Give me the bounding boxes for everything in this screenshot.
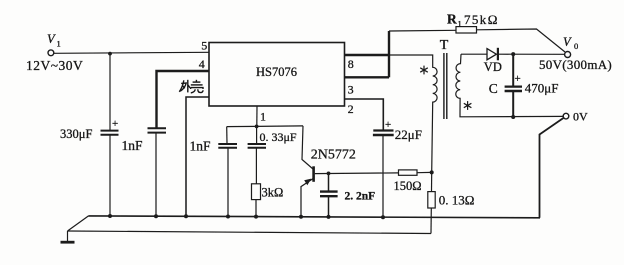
transformer core bbox=[443, 53, 445, 119]
label * secondary bbox=[464, 101, 472, 110]
svg-text:1: 1 bbox=[260, 109, 266, 123]
transformer T secondary bbox=[456, 54, 563, 117]
terminal 0V bbox=[563, 113, 569, 119]
svg-text:1: 1 bbox=[458, 19, 462, 29]
resistor 0.13 bbox=[431, 172, 433, 191]
svg-text:150Ω: 150Ω bbox=[394, 179, 422, 193]
resistor 150 bbox=[399, 170, 418, 175]
svg-text:4: 4 bbox=[199, 57, 205, 71]
wire diode to V0 bbox=[499, 53, 565, 55]
svg-text:2N5772: 2N5772 bbox=[311, 148, 356, 163]
svg-text:T: T bbox=[440, 38, 449, 53]
capacitor 2.2nF bbox=[328, 173, 330, 191]
svg-text:75kΩ: 75kΩ bbox=[464, 12, 499, 27]
svg-text:0. 13Ω: 0. 13Ω bbox=[439, 193, 475, 208]
resistor 3k bbox=[252, 184, 261, 200]
label * primary bbox=[420, 66, 428, 75]
node 150 right junction bbox=[430, 170, 434, 174]
wire base line bbox=[315, 172, 399, 175]
wire pin8 bbox=[345, 54, 390, 56]
svg-text:+: + bbox=[515, 73, 521, 85]
node pin1 junction bbox=[255, 125, 259, 129]
capacitor C3 1nF bbox=[226, 127, 228, 144]
svg-text:HS7076: HS7076 bbox=[256, 65, 297, 79]
capacitor 22uF bbox=[373, 129, 393, 131]
svg-text:330μF: 330μF bbox=[60, 127, 92, 141]
wire pin1 bus bbox=[227, 125, 303, 128]
svg-text:C: C bbox=[489, 81, 498, 96]
svg-text:50V(300mA): 50V(300mA) bbox=[539, 57, 612, 72]
svg-text:470μF: 470μF bbox=[525, 81, 559, 96]
svg-text:1: 1 bbox=[57, 39, 61, 49]
diode VD bbox=[487, 49, 496, 60]
svg-text:+: + bbox=[112, 118, 118, 130]
label waike (case) bbox=[179, 80, 203, 93]
svg-text:1nF: 1nF bbox=[122, 138, 144, 153]
svg-text:3: 3 bbox=[348, 82, 354, 96]
wire sense return bbox=[68, 231, 432, 234]
node diode out bbox=[511, 52, 515, 56]
resistor R1 75k bbox=[389, 29, 456, 32]
ground bbox=[67, 231, 69, 241]
svg-text:0V: 0V bbox=[573, 110, 588, 124]
svg-text:0. 33μF: 0. 33μF bbox=[260, 130, 297, 144]
wire pin3 bbox=[345, 76, 390, 78]
node rail dots bbox=[108, 214, 385, 219]
svg-text:22μF: 22μF bbox=[395, 127, 422, 142]
svg-text:8: 8 bbox=[348, 57, 354, 71]
transistor Q1 2N5772 bbox=[302, 126, 313, 169]
node C bottom bbox=[511, 115, 515, 119]
svg-text:2. 2nF: 2. 2nF bbox=[345, 190, 376, 202]
wire 0V to rail bbox=[540, 118, 564, 218]
svg-text:V: V bbox=[47, 32, 56, 46]
svg-text:R: R bbox=[447, 12, 457, 27]
svg-text:3kΩ: 3kΩ bbox=[262, 186, 284, 200]
svg-text:0: 0 bbox=[574, 41, 578, 51]
capacitor C 470uF bbox=[512, 54, 514, 86]
IC U1 HS7076 bbox=[209, 43, 345, 107]
transformer T primary bbox=[389, 55, 437, 172]
wire ground rail bbox=[89, 216, 541, 218]
wire V1 to pin5 bbox=[54, 52, 209, 53]
svg-text:2: 2 bbox=[348, 102, 354, 116]
svg-text:V: V bbox=[563, 35, 572, 49]
terminal V0 bbox=[565, 52, 571, 58]
capacitor C4 0.33uF bbox=[256, 126, 258, 143]
svg-text:5: 5 bbox=[201, 38, 207, 52]
terminal V1 bbox=[48, 50, 54, 56]
svg-text:+: + bbox=[385, 119, 391, 131]
wire secondary top to diode bbox=[461, 53, 487, 55]
capacitor 330uF bbox=[109, 54, 111, 131]
svg-text:1nF: 1nF bbox=[190, 138, 212, 153]
capacitor C2 1nF bbox=[157, 71, 210, 128]
wire case ground bbox=[186, 97, 209, 216]
wire pin2 bbox=[345, 99, 384, 130]
node 2.2nF top bbox=[327, 172, 331, 176]
wire ground diagonal bbox=[68, 216, 89, 231]
svg-text:12V~30V: 12V~30V bbox=[26, 58, 83, 73]
svg-text:VD: VD bbox=[484, 60, 502, 74]
wire pin1 bbox=[256, 106, 258, 126]
node input junction bbox=[108, 52, 112, 56]
